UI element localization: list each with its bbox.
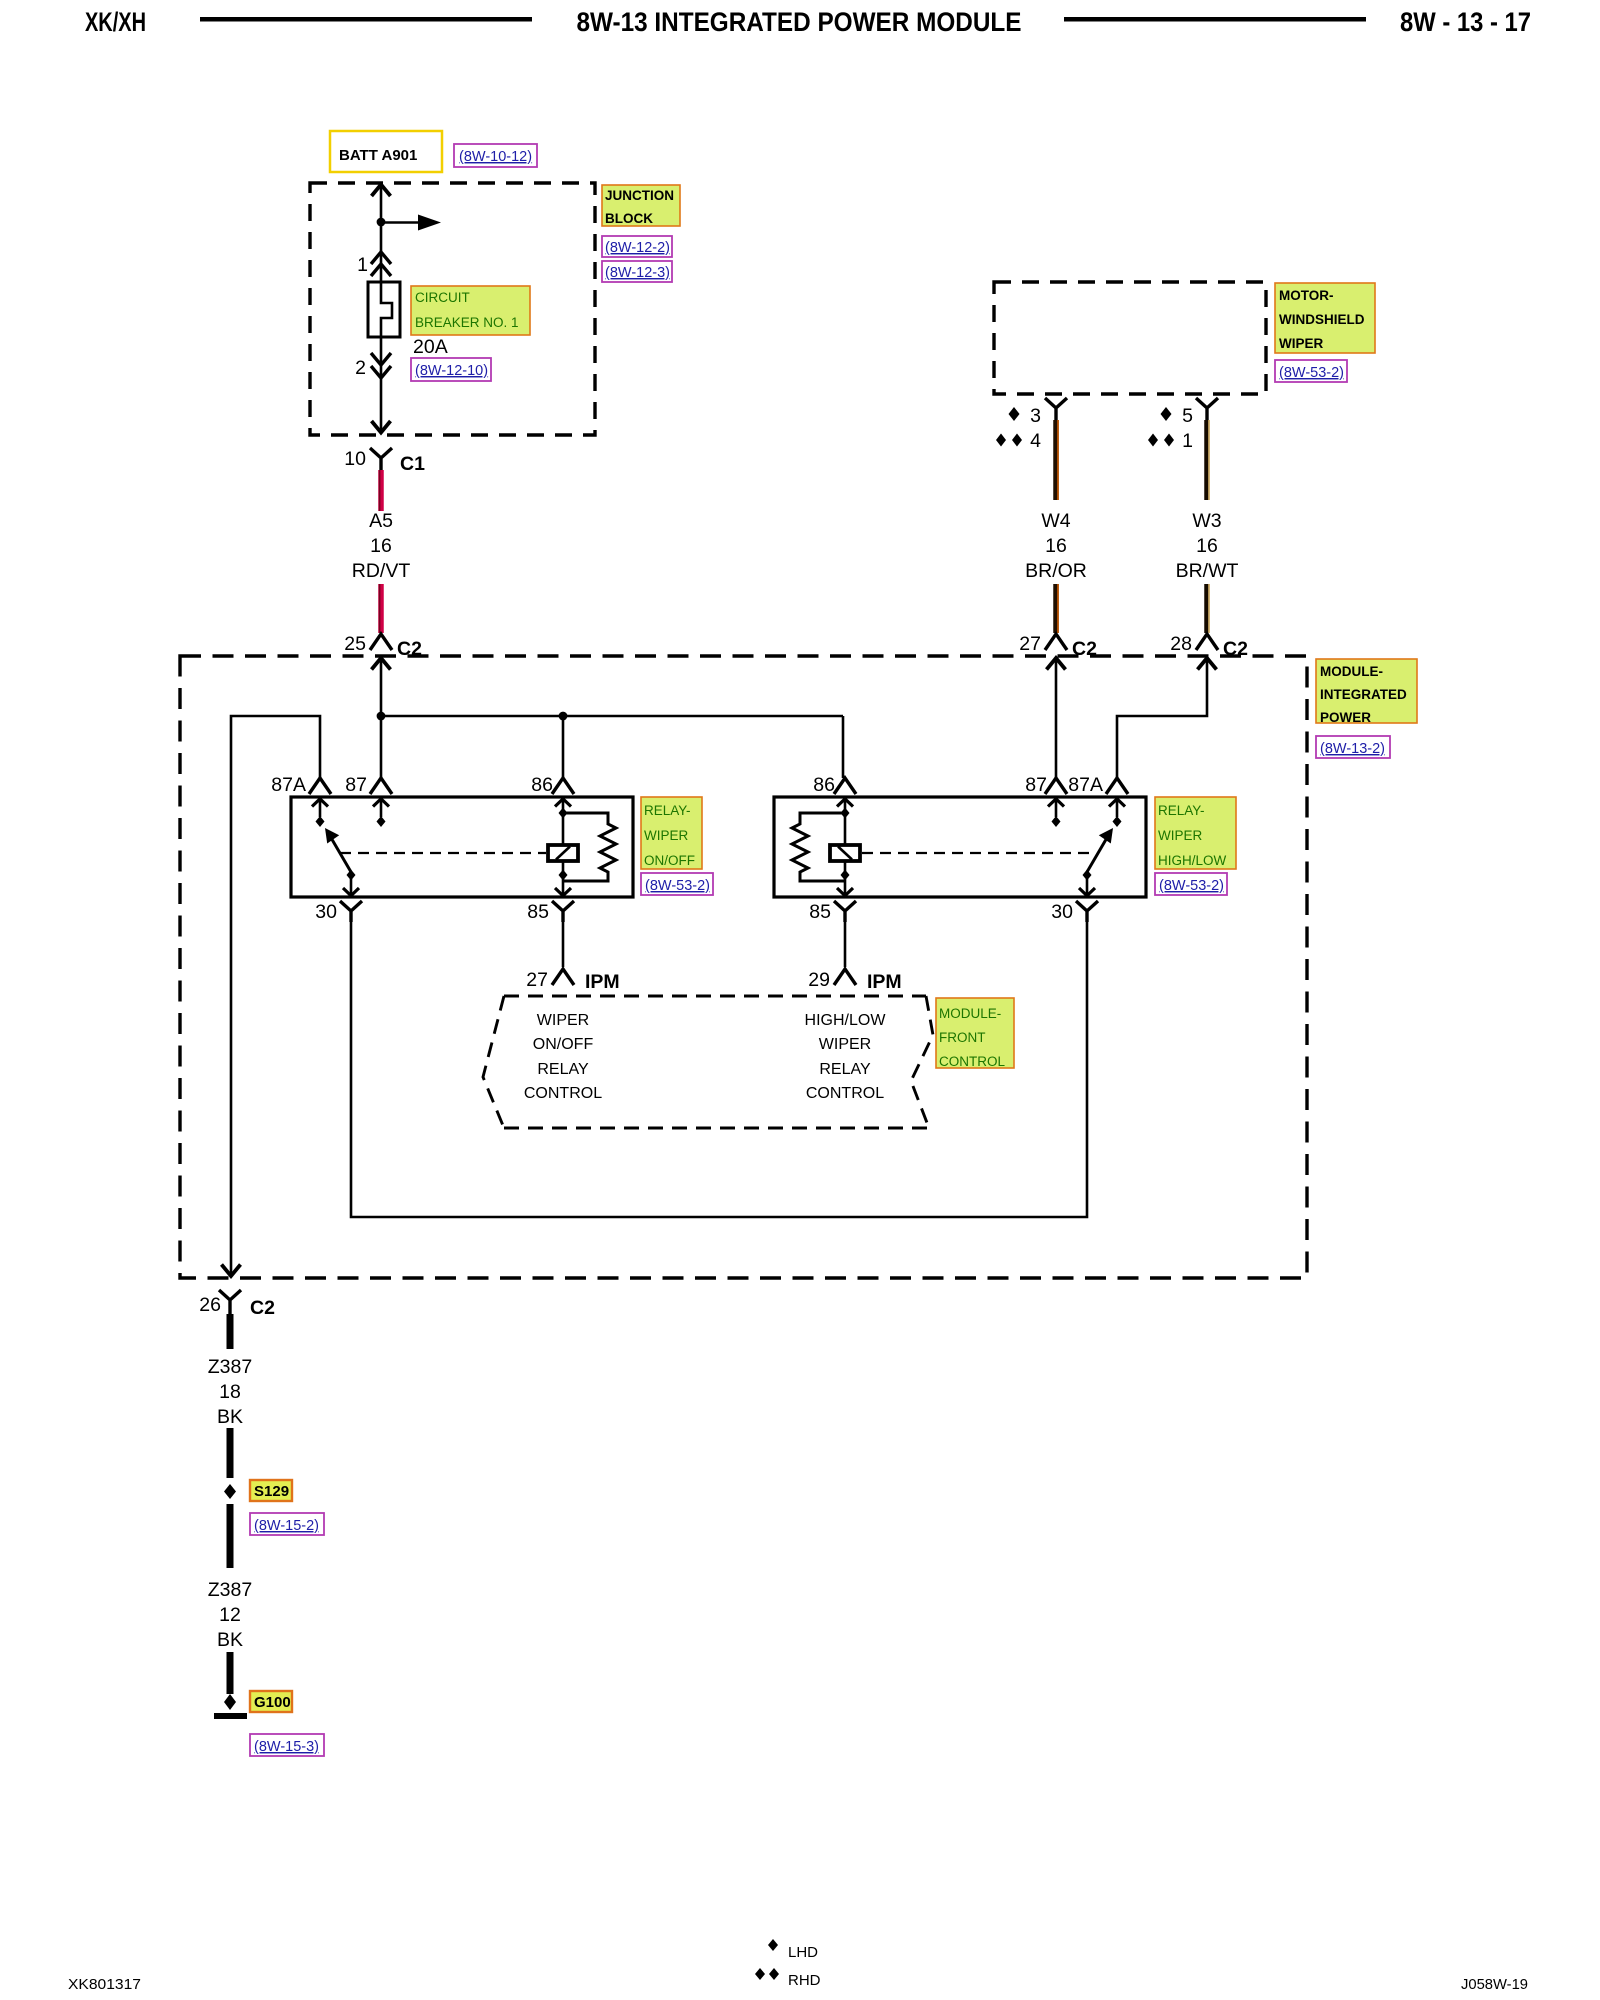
connector pin 4 (motor, RHD) [996,430,1041,452]
pin 87 right relay (chevron) [1025,774,1067,796]
switch arm right relay (30 to 87A) [1083,828,1114,881]
svg-text:28: 28 [1170,633,1192,655]
pin 30 exit arrow (left relay) [343,878,359,896]
mechanical link dashed (left relay) [340,852,546,854]
svg-text:WIPER: WIPER [819,1036,871,1053]
svg-text:30: 30 [1051,901,1073,923]
label CIRCUIT BREAKER NO. 1 [411,286,530,335]
svg-text:5: 5 [1182,405,1193,427]
mechanical link dashed (right relay) [862,852,1092,854]
wire Z387 18 BK segment 1 [227,1314,234,1349]
svg-text:87A: 87A [1068,774,1103,796]
svg-text:J058W-19: J058W-19 [1461,1976,1528,1993]
motor-windshield wiper dashed box [994,282,1266,394]
wire: B+ bus to both relays [381,715,843,718]
svg-text:RELAY-: RELAY- [1158,803,1205,818]
svg-text:3: 3 [1030,405,1041,427]
svg-text:MODULE-: MODULE- [1320,664,1383,679]
wire: left relay pin 87A up, left, down to ground exit 26 C2 [231,716,320,1274]
svg-text:CONTROL: CONTROL [939,1054,1005,1069]
arrow exit at 26 C2 inside IPM bottom [222,1265,241,1277]
svg-text:87: 87 [345,774,367,796]
resistor parallel with coil (right relay) [792,813,845,881]
arrow entry at 28 C2 inside IPM [1198,658,1217,670]
svg-text:INTEGRATED: INTEGRATED [1320,687,1407,702]
svg-text:12: 12 [219,1604,241,1626]
wire label Z387 18 BK [208,1356,252,1428]
svg-text:WIPER: WIPER [644,828,689,843]
svg-text:85: 85 [527,901,549,923]
svg-text:29: 29 [808,969,830,991]
svg-text:WIPER: WIPER [537,1012,589,1029]
svg-text:JUNCTION: JUNCTION [605,188,674,203]
pin 87 entry arrow and contact stub (right relay) [1048,799,1064,827]
svg-text:RELAY: RELAY [537,1061,589,1078]
link (8W-15-2) [250,1513,324,1535]
svg-text:30: 30 [315,901,337,923]
wire A5 lower segment [378,584,384,633]
svg-text:XK801317: XK801317 [68,1976,141,1993]
wire: left relay 30 to right relay 30 (bottom run) [351,922,1087,1217]
arrow up to BATT at JB top edge [372,185,391,197]
svg-text:S129: S129 [254,1483,289,1500]
module-integrated power dashed box (IPM) [180,656,1307,1278]
svg-text:8W - 13 - 17: 8W - 13 - 17 [1400,7,1531,37]
svg-text:16: 16 [370,535,392,557]
svg-text:86: 86 [531,774,553,796]
svg-text:(8W-10-12): (8W-10-12) [459,149,532,165]
svg-text:LHD: LHD [788,1944,818,1961]
header rule left [200,17,532,22]
pin 87A left relay (chevron) [271,774,331,796]
svg-text:RELAY-: RELAY- [644,803,691,818]
svg-text:Z387: Z387 [208,1579,252,1601]
connector at motor left pin (Y glyph) [1045,398,1067,420]
connector 28 C2 [1170,633,1248,660]
svg-text:BATT A901: BATT A901 [339,147,417,164]
wire label W4 16 BR/OR [1025,510,1087,582]
svg-text:W3: W3 [1192,510,1221,532]
connector pin 3 (motor, LHD) [1009,405,1042,427]
svg-text:8W-13 INTEGRATED POWER MODULE: 8W-13 INTEGRATED POWER MODULE [577,7,1022,37]
svg-text:POWER: POWER [1320,710,1371,725]
wire W3 lower segment [1207,584,1209,633]
node: junction dot in JB [377,218,386,227]
svg-text:16: 16 [1196,535,1218,557]
resistor parallel with coil (left relay) [563,813,616,881]
node: bus junction at feed [377,712,386,721]
wire label W3 16 BR/WT [1176,510,1239,582]
ground G100 symbol [214,1694,247,1719]
svg-text:IPM: IPM [867,971,902,993]
label MODULE-INTEGRATED POWER [1316,659,1417,725]
svg-text:A5: A5 [369,510,393,532]
link (8W-13-2) [1316,736,1390,758]
arrow entry at 25 C2 inside IPM [372,658,391,670]
svg-text:RELAY: RELAY [819,1061,871,1078]
connector 26 C2 [199,1290,275,1319]
wire: bus tap down to left relay pin 86 [562,716,565,778]
svg-text:Z387: Z387 [208,1356,252,1378]
svg-text:2: 2 [355,357,366,379]
wire label A5 16 RD/VT [352,510,411,582]
pin 87 entry arrow and contact stub (left relay) [373,799,389,827]
svg-text:20A: 20A [413,336,448,358]
svg-text:16: 16 [1045,535,1067,557]
label S129 [250,1480,292,1501]
header rule right [1064,17,1366,22]
wire W4 16 BR/OR upper segment [1056,420,1058,500]
label RELAY-WIPER ON/OFF [641,797,702,869]
wire: bus end down to right relay pin 86 [842,716,845,778]
label MOTOR-WINDSHIELD WIPER [1275,283,1375,353]
svg-text:ON/OFF: ON/OFF [644,853,695,868]
svg-text:86: 86 [813,774,835,796]
svg-text:CONTROL: CONTROL [806,1085,884,1102]
svg-text:BLOCK: BLOCK [605,211,653,226]
connector 27 IPM [526,969,619,993]
link (8W-53-2) motor [1275,360,1347,382]
splice S129 [224,1484,236,1499]
wire: left relay 85 to FCM pin 27 [562,922,565,967]
wire label Z387 12 BK [208,1579,252,1651]
relay K1 wiper on/off box [291,797,633,897]
svg-text:BR/WT: BR/WT [1176,560,1239,582]
connector 10 C1 [344,448,425,475]
svg-text:1: 1 [1182,430,1193,452]
junction block dashed box [310,183,595,435]
svg-text:XK/XH: XK/XH [85,7,146,37]
svg-text:CIRCUIT: CIRCUIT [415,290,470,305]
text high/low wiper relay control [805,1012,887,1102]
pin 85 left relay (Y glyph) [527,901,574,923]
connector 27 C2 [1019,633,1097,660]
pin 30 right relay (Y glyph) [1051,901,1098,923]
wire Z387 18 BK segment 2 [227,1428,234,1478]
svg-text:(8W-15-2): (8W-15-2) [254,1518,319,1534]
wire A5 16 RD/VT upper segment [378,470,384,511]
link (8W-15-3) [250,1734,324,1756]
svg-text:27: 27 [1019,633,1041,655]
link (8W-12-3) [602,261,672,282]
legend RHD [755,1968,821,1989]
svg-text:(8W-12-2): (8W-12-2) [605,240,670,256]
svg-text:FRONT: FRONT [939,1030,986,1045]
label RELAY-WIPER HIGH/LOW [1155,797,1236,869]
svg-text:WIPER: WIPER [1279,336,1324,351]
legend LHD [768,1939,818,1961]
svg-text:BK: BK [217,1406,243,1428]
pin 87A entry arrow and contact (left relay) [312,799,328,827]
switch arm left relay (30 to 87A) [325,828,356,881]
wire Z387 12 BK segment 3 [227,1504,234,1568]
coil left relay [548,799,578,896]
pin 87A right relay (chevron) [1068,774,1128,796]
svg-text:(8W-53-2): (8W-53-2) [645,878,710,894]
label JUNCTION BLOCK [602,185,680,226]
coil right relay [830,799,860,896]
svg-text:BK: BK [217,1629,243,1651]
connector 25 C2 [344,633,422,660]
svg-text:26: 26 [199,1294,221,1316]
module-front control dashed outline [483,996,933,1128]
label G100 [250,1691,292,1712]
link (8W-53-2) left relay [641,873,713,895]
svg-text:18: 18 [219,1381,241,1403]
wire Z387 12 BK segment 4 [227,1652,234,1694]
pin 87A entry arrow and contact (right relay) [1109,799,1125,827]
relay K2 wiper high/low box [774,797,1146,897]
svg-text:(8W-13-2): (8W-13-2) [1320,741,1385,757]
text wiper on/off relay control [524,1012,602,1102]
svg-text:(8W-12-10): (8W-12-10) [415,363,488,379]
svg-text:WINDSHIELD: WINDSHIELD [1279,312,1365,327]
connector pin 1 (motor, RHD) [1148,430,1193,452]
connector 29 IPM [808,969,901,993]
wire: feed 25 C2 down to relay pin 87 [380,660,383,778]
connector pin 5 (motor, LHD) [1161,405,1194,427]
node: bus junction at left relay 86 [559,712,568,721]
svg-text:WIPER: WIPER [1158,828,1203,843]
link (8W-53-2) right relay [1155,873,1227,895]
battery feed label BATT A901 [330,131,442,172]
circuit breaker CB1 [368,282,400,337]
link (8W-10-12) [454,144,537,167]
wire: 28 C2 down, jog left, to right relay pin 87A [1117,660,1207,778]
arrow entry at 27 C2 inside IPM [1047,658,1066,670]
svg-text:87A: 87A [271,774,306,796]
pin 86 left relay (chevron) [531,774,574,796]
pin 86 right relay (chevron) [813,774,856,796]
svg-text:87: 87 [1025,774,1047,796]
pin 87 left relay (chevron) [345,774,392,796]
link (8W-12-2) [602,236,672,257]
svg-text:MODULE-: MODULE- [939,1006,1001,1021]
label MODULE-FRONT CONTROL [936,998,1014,1069]
svg-text:ON/OFF: ON/OFF [533,1036,594,1053]
pin 30 exit arrow (right relay) [1079,878,1095,896]
svg-text:(8W-53-2): (8W-53-2) [1159,878,1224,894]
wire: branch arrow to other circuits [381,221,424,224]
wire W3 16 BR/WT upper segment [1207,420,1209,500]
arrow down at JB bottom edge [372,421,391,433]
wire: 27 C2 down to right relay pin 87 [1055,660,1058,778]
svg-text:27: 27 [526,969,548,991]
svg-text:W4: W4 [1041,510,1070,532]
svg-text:(8W-15-3): (8W-15-3) [254,1739,319,1755]
pin 30 left relay (Y glyph) [315,901,362,923]
svg-text:25: 25 [344,633,366,655]
svg-text:(8W-53-2): (8W-53-2) [1279,365,1344,381]
svg-text:HIGH/LOW: HIGH/LOW [1158,853,1227,868]
svg-text:1: 1 [357,254,368,276]
svg-text:C1: C1 [400,453,425,475]
connector at motor right pin (Y glyph) [1196,398,1218,420]
wire W4 lower segment [1056,584,1058,633]
svg-text:C2: C2 [250,1297,275,1319]
svg-text:IPM: IPM [585,971,620,993]
svg-text:BR/OR: BR/OR [1025,560,1087,582]
svg-text:RD/VT: RD/VT [352,560,411,582]
svg-text:BREAKER NO. 1: BREAKER NO. 1 [415,315,519,330]
wire: feed from BATT down through junction block [380,186,383,431]
pin 85 right relay (Y glyph) [809,901,856,923]
svg-text:(8W-12-3): (8W-12-3) [605,265,670,281]
svg-text:MOTOR-: MOTOR- [1279,288,1334,303]
svg-text:CONTROL: CONTROL [524,1085,602,1102]
connector pin 1 (junction block, double chevron) [357,252,391,276]
wire: right relay 85 to FCM pin 29 [844,922,847,967]
svg-text:85: 85 [809,901,831,923]
svg-text:HIGH/LOW: HIGH/LOW [805,1012,887,1029]
connector pin 2 (junction block, double chevron) [355,353,391,379]
svg-text:10: 10 [344,448,366,470]
link (8W-12-10) [411,358,491,381]
svg-text:4: 4 [1030,430,1041,452]
svg-text:RHD: RHD [788,1972,821,1989]
svg-text:G100: G100 [254,1694,291,1711]
